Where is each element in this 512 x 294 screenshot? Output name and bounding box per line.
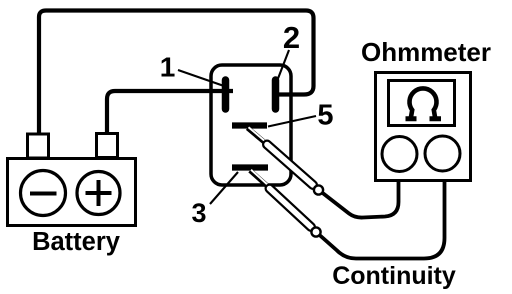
probe P1 end ring — [314, 185, 323, 194]
callout line for pin 2 — [276, 50, 290, 85]
relay K1 body — [211, 65, 291, 185]
wire probe P1 to ohmmeter left terminal — [322, 172, 399, 218]
wire probe P2 to ohmmeter right terminal — [320, 172, 445, 259]
svg-text:Ohmmeter: Ohmmeter — [361, 37, 491, 67]
battery negative symbol — [30, 192, 57, 196]
svg-text:Battery: Battery — [32, 228, 121, 256]
battery positive symbol — [86, 180, 112, 206]
wire battery positive to relay pin 1 — [107, 91, 233, 134]
battery negative post — [28, 134, 49, 158]
battery positive cell circle — [77, 172, 120, 215]
svg-text:2: 2 — [283, 20, 300, 55]
ohmmeter display window — [389, 81, 455, 126]
svg-text:1: 1 — [160, 52, 176, 83]
probe P2 end ring — [311, 227, 320, 236]
callout line for pin 1 — [178, 70, 224, 86]
ohmmeter omega symbol — [409, 88, 436, 117]
ohmmeter M1 body — [376, 73, 471, 181]
relay pin 1 terminal — [222, 80, 230, 109]
relay pin 3 contact bar — [232, 164, 268, 170]
relay pin 2 terminal — [272, 80, 280, 109]
svg-text:Continuity: Continuity — [332, 262, 456, 290]
probe P2 needle — [250, 171, 269, 188]
probe P1 handle — [267, 145, 313, 186]
probe P2 handle — [270, 189, 312, 228]
svg-text:3: 3 — [191, 198, 206, 228]
wire battery negative to relay pin 2 (top loop) — [39, 11, 314, 135]
battery positive post — [97, 134, 118, 158]
relay pin 5 contact bar — [232, 122, 267, 128]
callout line for pin 3 — [210, 172, 238, 204]
battery B1 body — [8, 159, 136, 226]
svg-text:5: 5 — [317, 100, 333, 132]
callout line for pin 5 — [268, 116, 316, 127]
ohmmeter left terminal — [382, 137, 417, 172]
probe P1 needle — [248, 128, 267, 144]
ohmmeter right terminal — [425, 136, 460, 171]
battery negative cell circle — [21, 171, 66, 216]
